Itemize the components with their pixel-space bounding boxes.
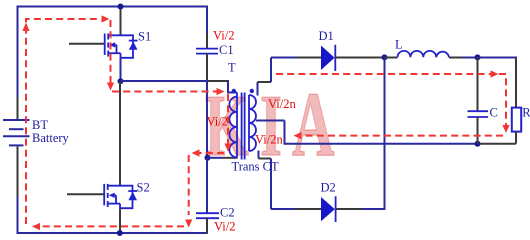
wire secondary bottom lead horizontal (black) (259, 158, 272, 160)
label BT Battery (32, 118, 70, 145)
current path arrow down (load) (502, 125, 509, 133)
node top rail junction (118, 4, 124, 10)
wire to D2 anode (black) (295, 208, 322, 210)
wire D2 branch right vertical (384, 58, 386, 211)
wire S1 drain vertical (120, 7, 122, 36)
wire to D1 anode (blue) (271, 57, 296, 59)
wire C-branch above C1 (black) (206, 33, 208, 49)
current path arrow right (top) (102, 15, 110, 22)
wire C-branch top (blue) (206, 7, 208, 34)
current path arrow up (battery) (22, 23, 29, 32)
transformer core (242, 93, 245, 160)
wire center tap vertical (284, 121, 286, 145)
wire top rail (17, 6, 209, 8)
wire C-branch below C2 (black) (206, 218, 208, 234)
current path bottom return (42, 225, 184, 227)
current path arrow right (primary top) (217, 88, 225, 95)
current path return vertical (188, 155, 190, 215)
svg-text:C1: C1 (219, 43, 234, 57)
current path arrow left (primary return) (192, 149, 200, 156)
node bottom rail junction (117, 230, 123, 236)
wire left vertical below battery (black) (17, 147, 19, 197)
wire D1 cathode to L node (335, 57, 385, 59)
current path arrow down (S1) (107, 83, 114, 91)
current path arrow left (secondary return) (294, 132, 302, 139)
wire to D1 anode (black) (296, 57, 322, 59)
transformer T primary winding (229, 93, 237, 158)
svg-text:Vi/2: Vi/2 (214, 220, 235, 234)
battery BT (3, 120, 30, 145)
svg-text:D2: D2 (321, 181, 336, 195)
current path secondary right vertical (499, 74, 506, 126)
current path primary vertical (227, 94, 229, 144)
transistor Q S2 (104, 184, 137, 208)
svg-text:Battery: Battery (32, 131, 70, 145)
wire C-branch mid (blue) (206, 80, 208, 158)
inductor L (398, 51, 450, 57)
wire left vertical lower (blue) (17, 196, 19, 234)
wire midpoint to transformer (black part) (207, 80, 229, 82)
current path secondary top (276, 73, 492, 75)
wire L left lead (385, 57, 398, 59)
wire left vertical upper (blue) (17, 6, 19, 98)
svg-text:T: T (228, 61, 236, 75)
wire right vertical above R (black) (515, 58, 517, 108)
svg-text:S1: S1 (138, 30, 151, 44)
svg-text:R: R (522, 106, 530, 120)
node secondary polarity dot (250, 89, 254, 93)
wire C branch lower (black) (477, 117, 479, 144)
wire C branch upper (black) (477, 58, 479, 112)
svg-text:A: A (292, 73, 335, 175)
wire output bottom rail (blue part) (285, 143, 479, 145)
current path primary return (199, 152, 224, 154)
wire bottom rail (17, 232, 208, 234)
wire C-branch between node and C2 (206, 158, 208, 213)
wire D2 cathode (black) (336, 208, 362, 210)
current path arrow down (return) (185, 220, 192, 228)
wire L right lead (blue) (462, 57, 478, 59)
wire secondary top lead horizontal (black) (258, 81, 272, 83)
wire S1 gate lead (69, 43, 104, 45)
wire primary top hook (228, 81, 237, 93)
node D-branch junction (382, 54, 388, 60)
wire primary bottom lead (blue) (208, 157, 223, 159)
svg-text:Vi/2: Vi/2 (207, 115, 228, 129)
wire primary bottom lead (black) (222, 157, 238, 159)
svg-text:D1: D1 (319, 29, 334, 43)
watermark KIA (205, 73, 335, 175)
wire L right lead (black) (449, 57, 462, 59)
wire S2 gate lead (67, 193, 104, 195)
svg-text:L: L (395, 38, 403, 52)
svg-text:C: C (490, 106, 498, 120)
current path arrow left (bottom) (32, 223, 40, 230)
wire midpoint to transformer (blue part) (121, 80, 208, 82)
wire D2 branch left vertical (270, 159, 272, 210)
wire top right corner (478, 57, 517, 60)
node capacitor midpoint (205, 155, 211, 161)
wire secondary top lead vertical (257, 82, 259, 96)
resistor R (512, 108, 521, 132)
diode D1 (321, 45, 335, 71)
capacitor C2 (196, 213, 219, 218)
svg-text:Vi/2: Vi/2 (213, 29, 234, 43)
wire D2 cathode (blue) (362, 208, 386, 210)
wire C-branch below C1 (black) (206, 54, 208, 80)
capacitor C (468, 111, 489, 117)
transformer secondary winding (249, 95, 256, 151)
node primary polarity dot (232, 89, 236, 93)
current path to primary (112, 91, 217, 93)
wire S1 source vertical (120, 58, 122, 82)
node C output junction top (475, 54, 481, 60)
current path arrow down (primary) (224, 144, 231, 152)
transistor Q S1 (105, 34, 138, 58)
wire S2 source vertical (119, 208, 121, 233)
svg-text:BT: BT (32, 118, 48, 132)
current path S1 vertical (110, 20, 112, 84)
wire output bottom rail (black part) (478, 143, 516, 145)
current path secondary bottom (297, 135, 503, 137)
wire to D2 anode (blue) (271, 208, 295, 210)
node C output junction bottom (475, 141, 481, 147)
svg-text:Vi/2n: Vi/2n (255, 133, 283, 147)
wire center tap horizontal (256, 120, 285, 122)
svg-text:S2: S2 (137, 181, 150, 195)
current path left loop vertical (26, 19, 101, 224)
capacitor C1 (196, 49, 218, 54)
svg-text:Vi/2n: Vi/2n (268, 97, 296, 111)
wire secondary top riser (270, 58, 272, 83)
wire secondary bottom lead vertical (258, 151, 260, 159)
svg-text:C2: C2 (220, 206, 235, 220)
wire left vertical above battery (black) (17, 97, 19, 119)
current path arrow right (secondary) (491, 70, 499, 77)
diode D2 (321, 196, 336, 222)
node S1-S2 midpoint (118, 78, 124, 84)
wire right vertical below R (black) (515, 132, 517, 144)
wire S2 drain vertical (119, 82, 121, 186)
